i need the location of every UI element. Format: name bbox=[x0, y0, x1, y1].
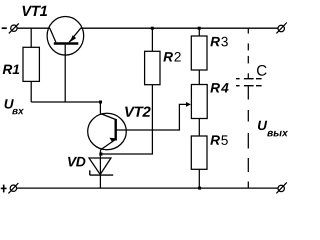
resistor R3 bbox=[191, 28, 207, 70]
terminal bottom-right bbox=[276, 182, 286, 193]
label VT1 bbox=[23, 6, 48, 16]
capacitor C (dashed optional branch) bbox=[236, 28, 262, 188]
node junction dot at VT2 emitter / VD anode bbox=[99, 153, 102, 156]
wire base node VT1 (R1 bottom to VT2 collector) bbox=[31, 101, 100, 103]
label R4 bbox=[210, 83, 228, 92]
transistor VT2 bbox=[88, 102, 127, 154]
label U output bbox=[258, 121, 288, 137]
node junction dot R2 at top rail bbox=[151, 27, 154, 30]
label U input bbox=[5, 99, 24, 114]
terminal bottom-left bbox=[8, 183, 18, 193]
wire top rail right segment bbox=[80, 27, 277, 29]
terminal top-right bbox=[276, 23, 286, 34]
label VD bbox=[68, 157, 85, 167]
label VT2 bbox=[125, 107, 150, 117]
node junction dot R5 at bottom rail bbox=[198, 187, 201, 190]
wire top rail left segment bbox=[17, 27, 50, 29]
label C bbox=[257, 65, 267, 76]
label R2 bbox=[163, 52, 180, 62]
wire VT2 emitter to R2 bottom bbox=[101, 85, 153, 154]
node junction dot R3 at top rail bbox=[198, 27, 201, 30]
wire bottom rail bbox=[17, 187, 278, 189]
label R3 bbox=[210, 37, 227, 47]
label R5 bbox=[210, 135, 227, 145]
wire VT2 base to R4 wiper bbox=[125, 104, 187, 130]
resistor R5 bbox=[191, 136, 207, 188]
resistor R4 (variable, wiper tap) bbox=[191, 70, 207, 136]
zener diode VD bbox=[89, 154, 113, 188]
resistor R2 bbox=[145, 28, 160, 84]
plus polarity sign bbox=[1, 185, 7, 193]
resistor R1 bbox=[23, 28, 39, 102]
wiper arrowhead into R4 bbox=[186, 102, 191, 107]
label R1 bbox=[3, 65, 20, 74]
transistor VT1 bbox=[47, 17, 84, 103]
terminal top-left bbox=[9, 23, 19, 33]
node junction dot at VT2 collector bbox=[99, 101, 102, 104]
minus polarity sign bbox=[2, 27, 7, 29]
